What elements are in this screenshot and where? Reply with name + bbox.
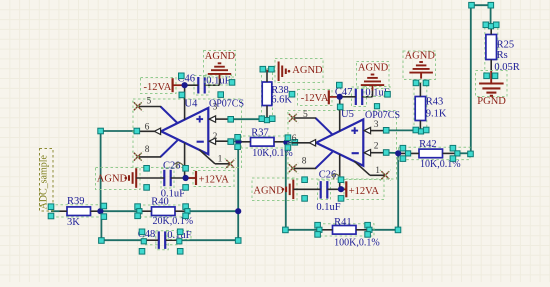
svg-text:+12VA: +12VA bbox=[349, 186, 380, 197]
wire: U5 output vertical down to R41 rail bbox=[285, 142, 287, 229]
handle U4 output corner bbox=[98, 128, 140, 134]
op-amp U4 OP07CS bbox=[133, 97, 242, 168]
svg-text:PGND: PGND bbox=[477, 96, 506, 107]
no-ERC X at U4 pin8 bbox=[132, 151, 143, 162]
C47 designator bbox=[335, 87, 353, 98]
handles R43 pins bbox=[383, 80, 429, 134]
svg-text:U4: U4 bbox=[185, 99, 199, 110]
svg-text:9.1K: 9.1K bbox=[426, 108, 447, 119]
svg-text:6: 6 bbox=[292, 134, 297, 144]
svg-text:-12VA: -12VA bbox=[144, 82, 172, 93]
R37 value 10K,0.1% bbox=[252, 148, 293, 159]
U4 designator bbox=[185, 99, 199, 110]
C28 designator bbox=[163, 160, 183, 171]
svg-text:R39: R39 bbox=[67, 196, 85, 207]
power port AGND (above R43) bbox=[403, 51, 436, 80]
R41 value 100K,0.1% bbox=[334, 237, 380, 248]
R42 designator bbox=[419, 139, 437, 150]
junction R37 left (U4 feedback node) bbox=[228, 135, 242, 150]
svg-text:2: 2 bbox=[213, 132, 218, 142]
C47 value 0.1uF bbox=[364, 87, 390, 99]
R38 designator bbox=[271, 85, 289, 96]
R43 value 9.1K bbox=[426, 108, 447, 119]
svg-text:1: 1 bbox=[218, 154, 223, 164]
power port AGND (C28 row) bbox=[96, 168, 141, 190]
R39 designator bbox=[67, 196, 85, 207]
svg-text:6: 6 bbox=[145, 122, 150, 132]
handles C26 area bbox=[302, 177, 344, 201]
resistor R42 10K,0.1% bbox=[398, 147, 470, 159]
resistor R43 9.1K bbox=[414, 83, 427, 132]
svg-text:R37: R37 bbox=[251, 127, 269, 138]
svg-text:AGND: AGND bbox=[405, 51, 436, 62]
handles C48 rail corners bbox=[99, 238, 241, 244]
no-ERC X at U5 pin5 bbox=[287, 112, 298, 123]
svg-text:AGND: AGND bbox=[292, 65, 323, 76]
junction U5 +12VA node bbox=[338, 186, 346, 192]
junction U4 +12VA node bbox=[183, 175, 196, 181]
net label ADC_sample bbox=[39, 149, 54, 212]
R25 designator bbox=[497, 40, 515, 51]
svg-text:3K: 3K bbox=[67, 217, 80, 228]
power port PGND bbox=[476, 71, 508, 107]
capacitor C26 0.1uF bbox=[293, 180, 346, 200]
ground AGND above C46 bbox=[204, 51, 236, 86]
capacitor C28 0.1uF bbox=[136, 169, 195, 189]
handles C46 area bbox=[179, 73, 235, 98]
R43 designator bbox=[426, 96, 444, 107]
no-ERC X at U4 pin1 bbox=[225, 158, 236, 169]
R38 value 6.6K bbox=[271, 95, 292, 106]
power port +12VA (C28 row) bbox=[193, 171, 234, 187]
junction R37 right (U5 output node) bbox=[283, 135, 297, 150]
capacitor C47 0.1uF bbox=[340, 87, 373, 107]
handles ADC_sample wire start bbox=[48, 204, 54, 219]
resistor R38 6.6K bbox=[262, 69, 273, 120]
junction U4 -12VA node bbox=[182, 82, 188, 88]
no-ERC X at U5 pin1 bbox=[380, 170, 391, 181]
R39 value 3K bbox=[67, 217, 80, 228]
wire: ADC_sample to R39 bbox=[51, 210, 60, 212]
wire: R42 feedback vertical bbox=[397, 153, 399, 230]
wire: node to R40 left bbox=[101, 210, 138, 212]
wire: R41 rail left bbox=[286, 229, 318, 231]
wire: U5 pin3 to R43 bbox=[385, 129, 421, 131]
U4 pin4 supply wire (to +12VA rail) bbox=[184, 143, 186, 178]
handles R42 pins bbox=[383, 145, 473, 161]
handles R25 / top wires bbox=[469, 2, 499, 78]
wire: C48 loop right vertical bbox=[237, 211, 239, 240]
handles C47 area bbox=[337, 82, 391, 109]
U4 pin7 supply wire (to -12VA rail) bbox=[184, 85, 186, 120]
svg-text:R43: R43 bbox=[426, 96, 444, 107]
power port -12VA (U4) bbox=[141, 78, 185, 94]
power port AGND (C26 row) bbox=[252, 178, 297, 201]
svg-text:U5: U5 bbox=[341, 109, 354, 120]
op-amp U5 OP07CS bbox=[288, 110, 397, 179]
wire: top link to R25 bbox=[471, 4, 491, 6]
handles R40 pins bbox=[135, 204, 190, 219]
svg-text:OP07CS: OP07CS bbox=[365, 110, 400, 121]
U5 pin7 supply wire bbox=[339, 97, 341, 131]
svg-text:8: 8 bbox=[145, 145, 150, 155]
svg-text:Rs: Rs bbox=[497, 50, 508, 61]
wire: U4 output to left vertical bbox=[101, 130, 137, 132]
wire: feedback vertical to U4 pin2 node bbox=[237, 142, 239, 211]
R41 designator bbox=[334, 217, 352, 228]
svg-text:AGND: AGND bbox=[358, 63, 389, 74]
R42 value 10K,0.1% bbox=[420, 159, 461, 170]
resistor R41 100K,0.1% bbox=[318, 224, 374, 236]
svg-text:100K,0.1%: 100K,0.1% bbox=[334, 237, 380, 248]
wire: C48 rail left bbox=[101, 239, 144, 241]
resistor R25 Rs 0.05R bbox=[485, 26, 498, 78]
C28 value 0.1uF bbox=[161, 188, 185, 199]
svg-text:R42: R42 bbox=[419, 139, 437, 150]
C46 designator bbox=[178, 74, 196, 85]
junction U5 -12VA node bbox=[337, 94, 343, 100]
U5 pin4 supply wire bbox=[339, 154, 341, 189]
wire: left vertical down to R39/R40 node bbox=[100, 131, 102, 211]
no-ERC X at U4 pin5 bbox=[132, 101, 143, 112]
svg-text:ADC_sample: ADC_sample bbox=[39, 155, 50, 210]
wire: C48 rail right bbox=[179, 239, 238, 241]
junction R42 left (U5 feedback node) bbox=[395, 150, 401, 156]
svg-text:0.1uF: 0.1uF bbox=[316, 202, 340, 213]
U5 comment OP07CS bbox=[365, 110, 400, 121]
svg-text:5: 5 bbox=[303, 110, 308, 120]
junction R39/R40 node bbox=[97, 203, 106, 219]
C48 designator bbox=[138, 229, 156, 240]
svg-text:AGND: AGND bbox=[97, 174, 128, 185]
ground AGND above C47 bbox=[357, 62, 390, 97]
svg-text:-12VA: -12VA bbox=[301, 93, 329, 104]
resistor R39 3K bbox=[51, 205, 102, 217]
wire: R40 right to feedback node bbox=[186, 210, 238, 212]
svg-text:8: 8 bbox=[302, 156, 307, 166]
capacitor C46 0.1uF bbox=[185, 76, 220, 96]
svg-text:+12VA: +12VA bbox=[199, 175, 230, 186]
junction feedback node (R40 right) bbox=[235, 208, 241, 214]
U5 designator bbox=[341, 109, 354, 120]
wire: R37 to U5 pin6 node bbox=[286, 141, 292, 143]
U4 comment OP07CS bbox=[209, 99, 244, 110]
R37 designator bbox=[251, 127, 269, 138]
wire: U4 pin3 to R38 bbox=[229, 118, 267, 120]
wire: R42 right to sense vertical bbox=[455, 152, 471, 154]
resistor R37 10K,0.1% bbox=[238, 136, 287, 148]
C48 value 0.1uF bbox=[167, 230, 192, 241]
power port AGND (above R38) bbox=[267, 59, 323, 83]
wire: C48 loop left vertical bbox=[100, 211, 102, 240]
C26 designator bbox=[319, 169, 340, 180]
svg-text:3: 3 bbox=[374, 120, 379, 130]
handles R41 pins bbox=[283, 222, 401, 237]
svg-text:1: 1 bbox=[375, 166, 380, 176]
handles C28 area bbox=[144, 166, 189, 191]
R25 alt name Rs bbox=[497, 50, 508, 61]
C26 value 0.1uF bbox=[316, 202, 340, 213]
svg-text:5: 5 bbox=[147, 97, 152, 107]
R40 value 20K,0.1% bbox=[153, 216, 194, 227]
wire: U4 pin2 to R37 node bbox=[229, 141, 239, 143]
handles C48 area bbox=[139, 229, 183, 254]
svg-text:R40: R40 bbox=[151, 197, 169, 208]
R25 value 0.05R bbox=[494, 62, 519, 73]
wire: R41 rail right bbox=[368, 229, 398, 231]
svg-text:R41: R41 bbox=[334, 217, 352, 228]
svg-text:2: 2 bbox=[374, 142, 379, 152]
power port +12VA (C26 row) bbox=[344, 180, 384, 200]
capacitor C48 0.1uF bbox=[143, 231, 180, 250]
wire: U5 pin2 to R42 node bbox=[385, 152, 399, 154]
power port -12VA (U5) bbox=[298, 90, 340, 106]
handles R38 bbox=[228, 66, 295, 122]
svg-text:OP07CS: OP07CS bbox=[209, 99, 244, 110]
no-ERC X at U5 pin8 bbox=[287, 163, 298, 174]
junction U4 pin2 node bbox=[237, 141, 239, 143]
svg-text:AGND: AGND bbox=[253, 185, 284, 196]
wire: R25 top stub bbox=[490, 5, 492, 26]
resistor R40 20K,0.1% bbox=[138, 205, 187, 217]
C46 value 0.1uF bbox=[205, 75, 232, 86]
R40 designator bbox=[151, 197, 169, 208]
wire: sense vertical (R25 left leg) bbox=[470, 5, 472, 153]
svg-text:R25: R25 bbox=[497, 40, 515, 51]
svg-text:AGND: AGND bbox=[205, 51, 236, 62]
